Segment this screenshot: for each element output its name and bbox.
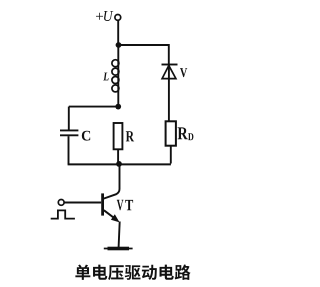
wire from resistor RD bottom to bottom rail [170, 146, 172, 164]
transistor VT emitter with arrow [104, 210, 116, 219]
caption text 单电压驱动电路 [75, 264, 190, 280]
wire from mid junction left to capacitor C branch [69, 106, 118, 108]
wire from resistor R bottom to bottom rail [117, 149, 119, 164]
diode V triangle (anode, pointing up) [162, 66, 176, 79]
value label RD [178, 127, 194, 140]
ground [104, 248, 133, 250]
value label L [103, 73, 108, 81]
wire from top junction down through inductor to mid junction [117, 45, 119, 107]
value label C [82, 131, 90, 141]
transistor VT label [117, 200, 133, 210]
capacitor C plates [60, 130, 78, 135]
inductor L coil [112, 60, 119, 92]
wire from top junction right and down to diode V [119, 45, 169, 64]
node collector junction (dot) [116, 161, 122, 167]
wire from +U terminal down to top junction [117, 21, 119, 45]
input pulse waveform symbol [51, 210, 75, 218]
diode V cathode bar [162, 64, 178, 66]
wire collector lead down from rail [104, 164, 120, 199]
value label V [180, 68, 187, 77]
wire emitter lead down to ground [119, 222, 120, 248]
resistor R body [114, 123, 123, 149]
node mid junction (dot) [115, 104, 121, 110]
wire from diode V down to resistor RD [168, 65, 170, 122]
value label +U [96, 11, 113, 21]
node +U supply terminal [115, 15, 121, 21]
wire base lead from input terminal [64, 202, 101, 204]
wire capacitor C top lead [68, 107, 70, 130]
transistor VT base bar [101, 193, 104, 215]
wire bottom rail [68, 163, 171, 165]
wire capacitor C bottom lead [68, 136, 70, 164]
value label R [126, 131, 134, 141]
node input terminal circle [58, 200, 64, 206]
node junction top (dot) [116, 42, 122, 48]
resistor RD body [166, 121, 176, 145]
